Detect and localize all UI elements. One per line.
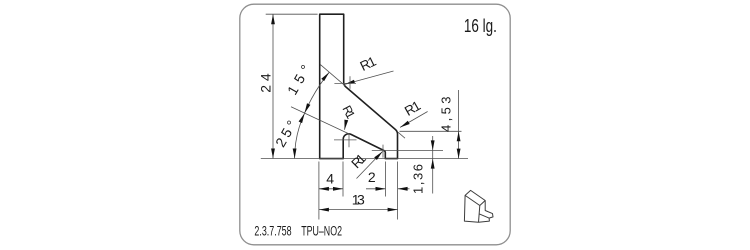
dimension 13 arrow left bbox=[319, 208, 329, 212]
dimension 24 line bbox=[272, 14, 274, 158]
angle 25 arc bbox=[295, 113, 305, 158]
svg-text:2: 2 bbox=[368, 169, 376, 185]
svg-text:1,36: 1,36 bbox=[410, 164, 425, 194]
dimension 4,53 arrow bottom bbox=[457, 149, 461, 159]
angle 15 arrow lower bbox=[305, 103, 311, 113]
construction ray steep diagonal bbox=[321, 65, 346, 86]
leader R1 bottom line bbox=[357, 152, 383, 179]
leader R1 mid arrow bbox=[344, 120, 348, 130]
angle 25 arrow bottom bbox=[293, 149, 297, 159]
dimension 4,53 line bbox=[458, 90, 460, 159]
dimension 2 arrow right bbox=[398, 187, 408, 191]
leader R1 right arrow bbox=[400, 121, 410, 128]
dimension 13 arrow right bbox=[388, 208, 398, 212]
extension line bottom baseline bbox=[261, 158, 468, 160]
extension line top (24) bbox=[266, 13, 318, 15]
extension line left of 2 bbox=[385, 162, 387, 197]
svg-text:4,53: 4,53 bbox=[439, 97, 454, 133]
dimension 2 tail left bbox=[366, 188, 386, 190]
dimension 2 arrow left bbox=[376, 187, 386, 191]
dimension 1,36 arrow bottom bbox=[431, 159, 435, 169]
angle 15 arc bbox=[305, 72, 330, 113]
dimension 2 tail right bbox=[398, 188, 410, 190]
dimension 24 arrow bottom bbox=[271, 149, 275, 159]
fillet center mark step bbox=[382, 145, 384, 158]
construction ray shallow diagonal bbox=[291, 107, 350, 134]
dimension 4 arrow left bbox=[319, 187, 329, 191]
leader R1 top line bbox=[345, 71, 394, 84]
extension line right (2/13) bbox=[397, 162, 399, 220]
leader R1 bottom arrow bbox=[374, 152, 382, 161]
dimension 1,36 arrow top bbox=[431, 140, 435, 150]
extension line blade end top (4,53) bbox=[400, 130, 462, 132]
extension line left (4/13) bbox=[318, 162, 320, 220]
fillet center mark corner bbox=[334, 139, 357, 141]
extension line step top (1,36) bbox=[372, 149, 443, 151]
leader R1 top arrow bbox=[345, 80, 355, 85]
angle 15 arrow upper bbox=[321, 72, 329, 81]
dimension 4 line bbox=[319, 188, 343, 190]
angle 25 arrow top bbox=[299, 113, 305, 123]
svg-text:TPU–NO2: TPU–NO2 bbox=[301, 224, 342, 239]
extension line right of 4 bbox=[342, 162, 344, 197]
dimension 1,36 line bbox=[432, 136, 434, 194]
profile outline bbox=[320, 14, 398, 158]
dimension 24 arrow top bbox=[271, 14, 275, 24]
svg-text:13: 13 bbox=[352, 191, 365, 207]
dimension 4,53 arrow top bbox=[457, 131, 461, 141]
svg-text:2.3.7.758: 2.3.7.758 bbox=[254, 224, 291, 239]
isometric thumbnail bbox=[464, 190, 493, 222]
fillet center mark V1 bbox=[334, 82, 356, 84]
dimension 4 arrow right bbox=[333, 187, 343, 191]
drawing frame bbox=[240, 4, 510, 245]
construction hair past blade end bbox=[398, 132, 405, 138]
svg-text:4: 4 bbox=[326, 171, 334, 187]
leader R1 mid line bbox=[344, 120, 347, 130]
leader R1 right line bbox=[400, 112, 428, 128]
dimension 13 line bbox=[319, 209, 398, 211]
svg-text:16 lg.: 16 lg. bbox=[464, 15, 497, 36]
